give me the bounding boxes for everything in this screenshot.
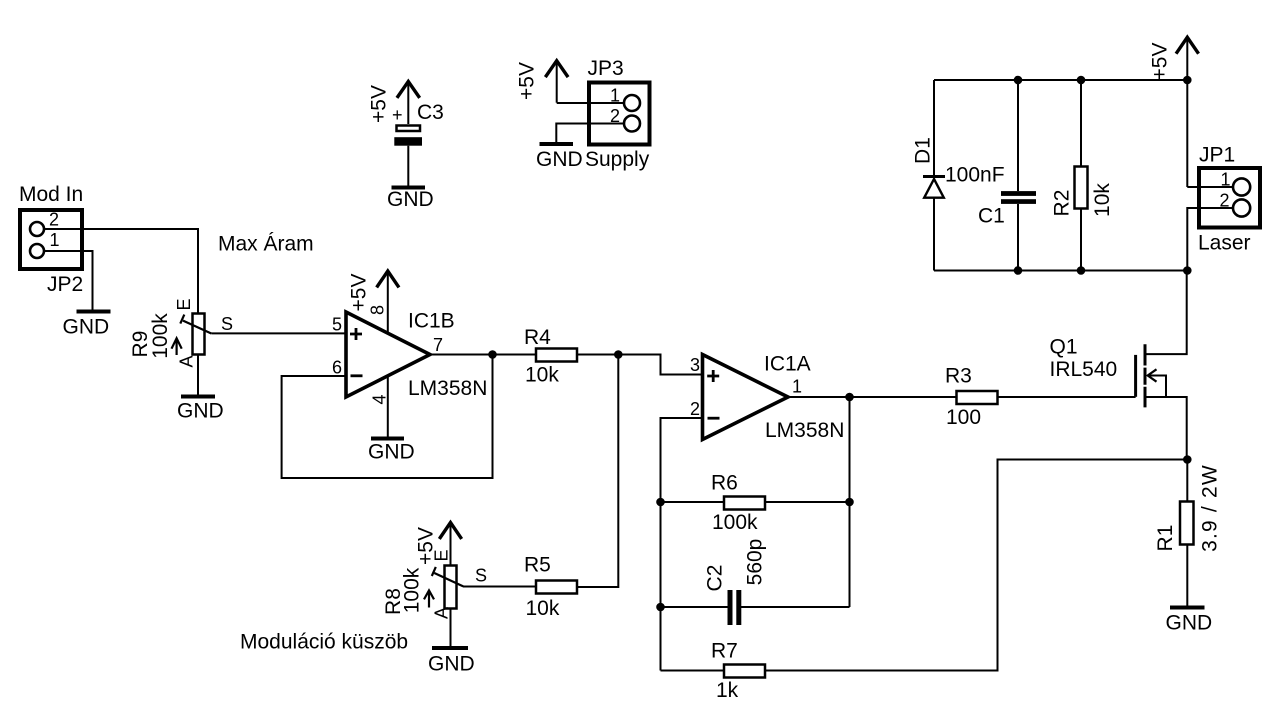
Q1 gate bbox=[1134, 355, 1137, 397]
ground (JP2) bbox=[63, 312, 111, 339]
svg-text:100k: 100k bbox=[149, 313, 172, 359]
junction R4/R5/IC1A bbox=[614, 350, 623, 359]
wire IC1A pin 2 bbox=[661, 418, 703, 671]
ground (IC1B pin 4) bbox=[368, 439, 415, 464]
svg-text:GND: GND bbox=[63, 316, 110, 339]
svg-text:4: 4 bbox=[370, 394, 390, 404]
svg-text:3.9 / 2W: 3.9 / 2W bbox=[1199, 464, 1222, 552]
wire R6 net bbox=[661, 501, 850, 503]
R9 wiper bbox=[183, 321, 211, 334]
svg-text:JP2: JP2 bbox=[47, 273, 83, 296]
op-amp IC1A bbox=[690, 353, 844, 443]
junction top rail / +5V bbox=[1183, 76, 1192, 85]
svg-text:8: 8 bbox=[368, 305, 388, 315]
wire C3 to ground bbox=[407, 146, 409, 187]
svg-text:1: 1 bbox=[792, 377, 802, 397]
svg-text:+5V: +5V bbox=[368, 85, 391, 123]
svg-text:2: 2 bbox=[49, 210, 59, 230]
svg-text:C3: C3 bbox=[417, 101, 444, 124]
wire +5V top rail bbox=[934, 79, 1187, 81]
+5V arrow IC1B pin 8 bbox=[348, 271, 399, 332]
wire +5V to JP1 pin 1 bbox=[1187, 186, 1233, 188]
junction Q1 source / R1 / R7 bbox=[1183, 455, 1192, 464]
ground (C3) bbox=[387, 188, 434, 212]
wire +5V to JP3 pin 1 bbox=[557, 102, 624, 104]
svg-text:1: 1 bbox=[1221, 170, 1231, 190]
wire R4 to junction bbox=[577, 354, 618, 356]
svg-text:3: 3 bbox=[690, 355, 700, 375]
svg-text:LM358N: LM358N bbox=[765, 419, 844, 442]
junction R6 right bbox=[845, 498, 854, 507]
svg-text:C1: C1 bbox=[978, 205, 1005, 228]
potentiometer R9 100k bbox=[129, 298, 233, 367]
resistor R4 10k bbox=[524, 326, 577, 387]
svg-text:C2: C2 bbox=[704, 565, 727, 592]
svg-text:1k: 1k bbox=[716, 679, 739, 702]
svg-text:10k: 10k bbox=[525, 364, 559, 387]
JP1 pin 1 pad bbox=[1233, 178, 1250, 195]
connector JP2 (Mod In) bbox=[19, 183, 83, 296]
JP3 pin 1 pad bbox=[624, 95, 640, 111]
svg-text:Supply: Supply bbox=[585, 148, 650, 171]
svg-text:100k: 100k bbox=[712, 511, 758, 534]
junction C2 left bbox=[656, 603, 665, 612]
wire junction to IC1A pin 3 bbox=[618, 355, 702, 375]
svg-text:Laser: Laser bbox=[1198, 232, 1251, 255]
wire R8 A to ground bbox=[450, 609, 452, 648]
svg-text:R2: R2 bbox=[1051, 190, 1074, 217]
junction bottom rail / R2 bbox=[1077, 266, 1086, 275]
wire JP1 pin 2 to bottom rail bbox=[1187, 208, 1233, 271]
resistor R1 3.9/2W bbox=[1154, 460, 1222, 607]
svg-text:GND: GND bbox=[387, 188, 434, 211]
Q1 source wire bbox=[1145, 397, 1187, 460]
transistor Q1 IRL540 bbox=[1050, 271, 1187, 460]
diode D1 bbox=[912, 80, 1005, 271]
+5V supply arrow (laser rail) bbox=[1149, 37, 1198, 187]
wire junction down to R5 bbox=[577, 355, 618, 588]
junction top rail / R2 bbox=[1077, 76, 1086, 85]
junction R6 left bbox=[656, 498, 665, 507]
wire IC1A output down right branch bbox=[849, 397, 851, 607]
svg-text:LM358N: LM358N bbox=[408, 377, 487, 400]
svg-text:IC1B: IC1B bbox=[408, 310, 455, 333]
junction IC1A output bbox=[845, 393, 854, 402]
svg-text:GND: GND bbox=[368, 441, 415, 464]
resistor R6 100k bbox=[711, 472, 765, 535]
wire R8 S to R5 bbox=[463, 586, 536, 588]
+5V supply arrow (R8) bbox=[415, 523, 461, 566]
junction bottom rail / JP1 pin 2 bbox=[1183, 266, 1192, 275]
svg-text:S: S bbox=[475, 566, 487, 586]
svg-text:R5: R5 bbox=[524, 554, 551, 577]
svg-text:560p: 560p bbox=[744, 539, 767, 586]
wire JP2 pin 1 to ground bbox=[44, 251, 93, 311]
wire R9 A to ground bbox=[197, 355, 199, 396]
capacitor C1 100nF bbox=[978, 80, 1036, 271]
Q1 channel bbox=[1144, 344, 1147, 407]
svg-text:JP3: JP3 bbox=[588, 57, 624, 80]
svg-text:E: E bbox=[174, 298, 194, 310]
wire JP3 pin 2 to ground bbox=[556, 124, 624, 143]
svg-text:1: 1 bbox=[610, 86, 620, 106]
svg-text:+5V: +5V bbox=[1149, 43, 1172, 81]
Q1 drain wire bbox=[1145, 271, 1187, 355]
JP2 pin 2 pad bbox=[30, 222, 44, 236]
svg-text:JP1: JP1 bbox=[1199, 144, 1235, 167]
svg-text:R7: R7 bbox=[711, 640, 738, 663]
IC1B pin 4 to ground bbox=[370, 376, 390, 438]
wire C2 net bbox=[661, 606, 850, 608]
svg-text:+: + bbox=[392, 105, 403, 125]
svg-text:1: 1 bbox=[50, 230, 60, 250]
ground (R1) bbox=[1166, 608, 1213, 635]
wire IC1A output bbox=[788, 396, 1136, 398]
svg-text:GND: GND bbox=[536, 148, 583, 171]
svg-text:GND: GND bbox=[428, 653, 475, 676]
wire bottom rail (laser cathode net) bbox=[934, 270, 1187, 272]
svg-text:Max Áram: Max Áram bbox=[218, 233, 314, 256]
connector JP3 (Supply) bbox=[585, 57, 650, 171]
junction IC1B output/feedback bbox=[488, 350, 497, 359]
svg-text:10k: 10k bbox=[1091, 183, 1114, 217]
capacitor C2 560p bbox=[704, 539, 767, 625]
svg-text:A: A bbox=[432, 607, 452, 619]
svg-text:R3: R3 bbox=[945, 365, 972, 388]
svg-text:100nF: 100nF bbox=[945, 164, 1005, 187]
svg-text:7: 7 bbox=[433, 335, 443, 355]
svg-text:R1: R1 bbox=[1154, 525, 1177, 552]
resistor R3 100 bbox=[945, 365, 998, 430]
junction top rail / C1 bbox=[1014, 76, 1023, 85]
svg-text:Q1: Q1 bbox=[1050, 336, 1078, 359]
wire IC1B pin 6 feedback loop bbox=[282, 355, 493, 479]
resistor R7 1k bbox=[711, 640, 765, 703]
svg-text:2: 2 bbox=[690, 399, 700, 419]
+5V supply arrow (C3) bbox=[368, 82, 419, 125]
wire JP2 pin 2 to R9 terminal E bbox=[44, 229, 198, 313]
svg-text:100: 100 bbox=[946, 406, 981, 429]
R9 adjust arrow bbox=[172, 338, 182, 355]
Q1 bulk arrow bbox=[1148, 376, 1166, 398]
connector JP1 (Laser) bbox=[1198, 144, 1260, 255]
R8 adjust arrow bbox=[424, 590, 434, 607]
svg-text:E: E bbox=[432, 549, 452, 561]
svg-text:R6: R6 bbox=[711, 472, 738, 495]
+5V supply arrow (JP3) bbox=[516, 61, 568, 103]
svg-text:6: 6 bbox=[332, 358, 342, 378]
wire IC1B pin 7 output bbox=[430, 354, 536, 356]
svg-text:2: 2 bbox=[1220, 191, 1230, 211]
op-amp IC1B bbox=[332, 310, 487, 401]
ground (R8) bbox=[428, 648, 475, 676]
svg-text:GND: GND bbox=[177, 400, 224, 423]
svg-text:2: 2 bbox=[610, 106, 620, 126]
wire R7 net bbox=[661, 460, 1188, 671]
ground (JP3) bbox=[536, 144, 583, 171]
svg-text:IC1A: IC1A bbox=[764, 353, 811, 376]
svg-text:10k: 10k bbox=[526, 597, 560, 620]
resistor R2 10k bbox=[1051, 80, 1115, 271]
svg-text:D1: D1 bbox=[912, 137, 935, 164]
svg-text:GND: GND bbox=[1166, 612, 1213, 635]
ground (R9) bbox=[177, 397, 224, 423]
resistor R5 10k bbox=[524, 554, 577, 621]
svg-text:R4: R4 bbox=[524, 326, 551, 349]
svg-text:+5V: +5V bbox=[516, 62, 539, 100]
svg-text:100k: 100k bbox=[401, 567, 424, 613]
capacitor C3 (polarized) bbox=[392, 101, 444, 146]
svg-text:S: S bbox=[221, 314, 233, 334]
JP1 pin 2 pad bbox=[1233, 199, 1250, 216]
junction bottom rail / C1 bbox=[1014, 266, 1023, 275]
svg-text:IRL540: IRL540 bbox=[1050, 358, 1118, 381]
potentiometer R8 100k bbox=[382, 549, 487, 619]
JP2 pin 1 pad bbox=[30, 244, 44, 258]
svg-text:Moduláció küszöb: Moduláció küszöb bbox=[240, 631, 408, 654]
R8 wiper bbox=[434, 573, 463, 586]
wire R9 S to IC1B pin 5 bbox=[211, 332, 346, 334]
JP3 pin 2 pad bbox=[624, 116, 640, 132]
svg-text:Mod In: Mod In bbox=[19, 183, 83, 206]
svg-text:5: 5 bbox=[332, 315, 342, 335]
svg-text:A: A bbox=[177, 355, 197, 367]
